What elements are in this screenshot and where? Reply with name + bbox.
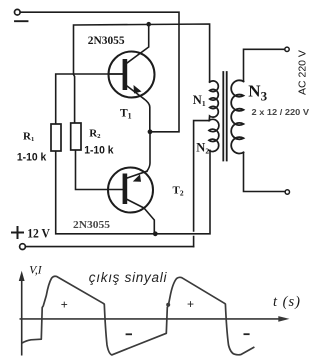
wire collector line top — [74, 24, 210, 82]
minus sign region 1 — [126, 333, 132, 335]
resistor R2 — [71, 123, 81, 150]
terminal minus (top-left) — [14, 9, 20, 15]
svg-text:V,I: V,I — [29, 265, 42, 277]
transformer primary N2 — [209, 119, 219, 151]
svg-text:N2: N2 — [196, 140, 209, 155]
svg-text:T2: T2 — [173, 185, 184, 198]
wire T2 collector down — [144, 208, 154, 234]
transistor T2 — [108, 168, 153, 213]
transformer primary N1 — [209, 81, 218, 121]
minus sign — [15, 20, 28, 22]
svg-text:T1: T1 — [120, 108, 132, 121]
svg-text:R2: R2 — [89, 127, 100, 140]
ink blob on rising edge — [166, 303, 170, 307]
transformer secondary N3 — [231, 80, 243, 153]
wire bottom rail — [25, 246, 193, 248]
svg-text:2N3055: 2N3055 — [88, 33, 125, 47]
wire T1 collector — [127, 24, 149, 63]
waveform output signal — [22, 276, 255, 355]
svg-text:t (s): t (s) — [273, 294, 301, 310]
terminal AC bottom — [285, 190, 289, 194]
wire base line T1 — [56, 74, 123, 124]
wire secondary bottom lead — [244, 152, 286, 191]
resistor R1 — [51, 124, 61, 151]
wire top rail — [20, 12, 179, 132]
node collector T1 junction — [146, 22, 151, 27]
svg-text:N1: N1 — [193, 93, 206, 108]
node T2 collector junction — [153, 231, 158, 236]
svg-text:+: + — [61, 297, 68, 311]
graph V axis — [21, 278, 23, 356]
svg-text:AC 220 V: AC 220 V — [296, 50, 308, 95]
wire secondary top lead — [244, 49, 285, 81]
plus sign — [12, 227, 23, 238]
svg-text:1-10 k: 1-10 k — [84, 145, 114, 157]
transistor T1 — [109, 52, 155, 99]
svg-text:+: + — [187, 297, 194, 311]
wire center tap riser — [194, 121, 209, 231]
wire T2 emitter up — [147, 132, 150, 171]
wire R2 riser — [73, 75, 76, 123]
wire R2 lower — [76, 150, 123, 190]
svg-text:N3: N3 — [248, 82, 267, 104]
svg-text:12 V: 12 V — [27, 226, 50, 240]
svg-text:R1: R1 — [23, 130, 34, 143]
terminal AC top — [285, 47, 289, 51]
svg-text:çıkış sinyali: çıkış sinyali — [89, 270, 168, 285]
svg-text:2 x 12 / 220 V: 2 x 12 / 220 V — [252, 107, 310, 117]
svg-text:2N3055: 2N3055 — [73, 220, 110, 231]
wire T1 emitter down — [144, 99, 150, 132]
minus sign region 2 — [244, 333, 250, 335]
node emitter junction — [148, 129, 153, 134]
terminal plus (bottom-left) — [20, 244, 26, 250]
graph t axis — [20, 318, 282, 320]
wire R1 lower — [56, 150, 210, 233]
transformer core — [222, 72, 224, 161]
svg-text:1-10 k: 1-10 k — [17, 152, 47, 164]
